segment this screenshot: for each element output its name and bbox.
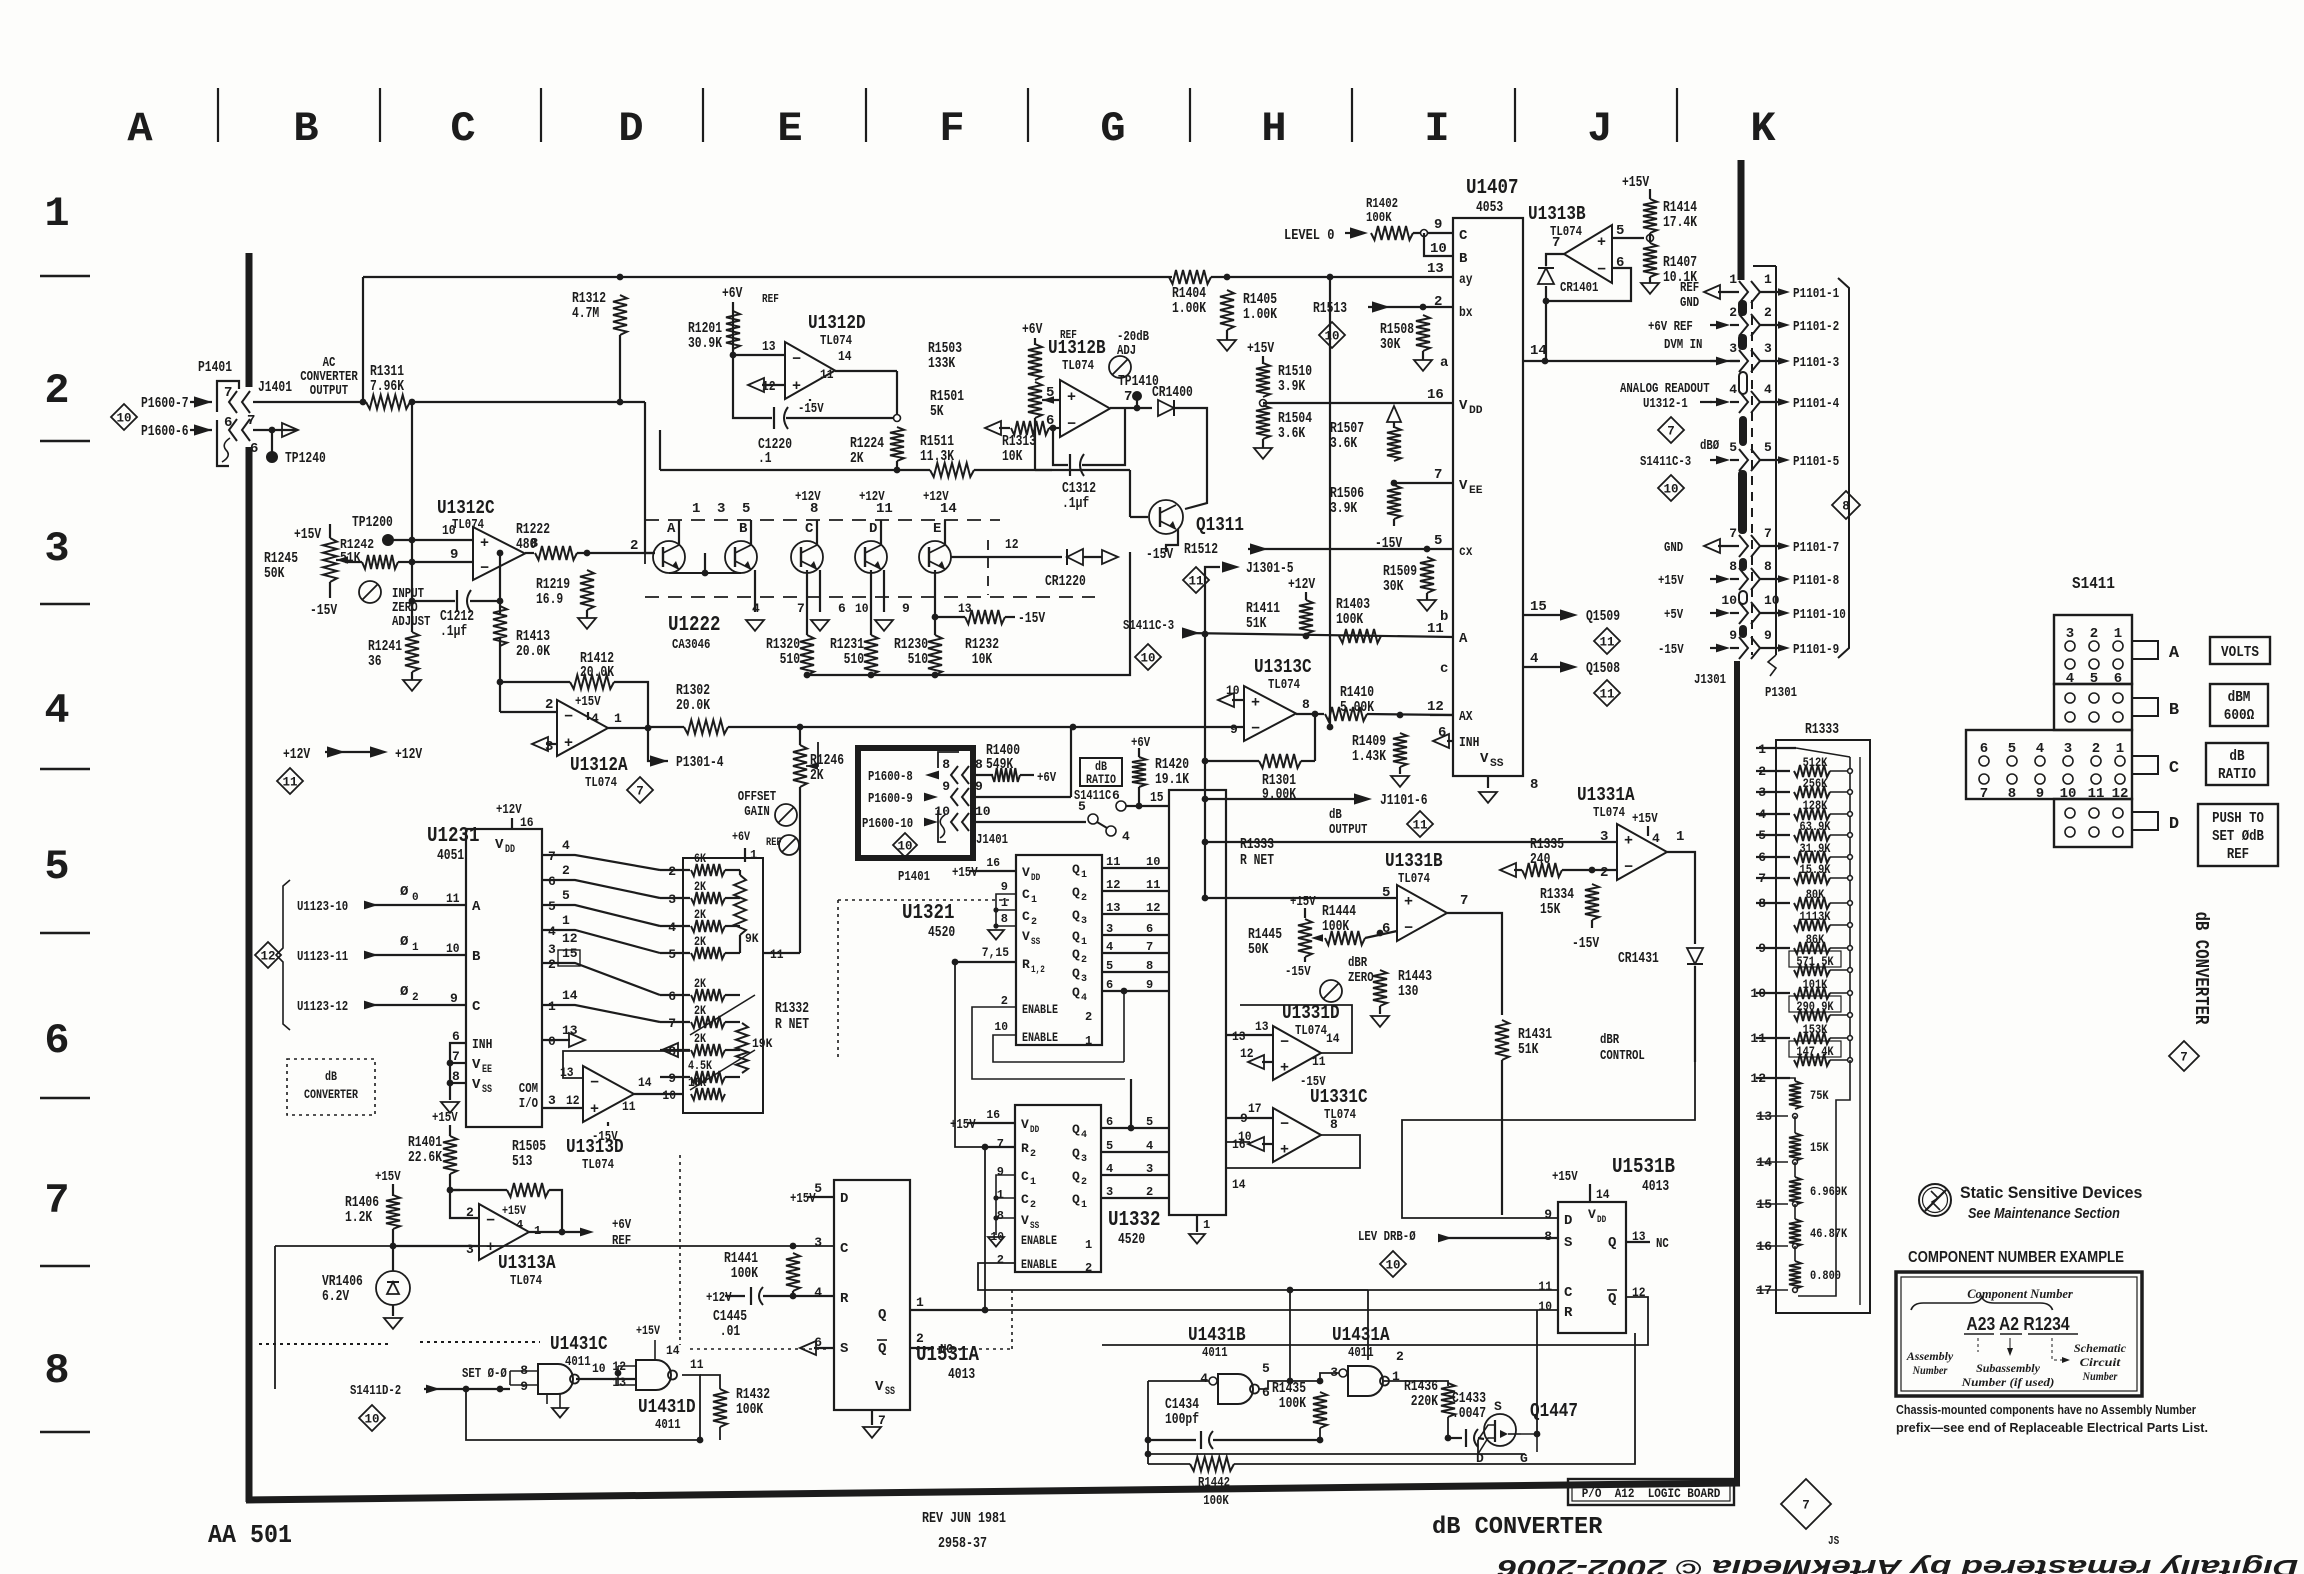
- wire x985 column: [984, 1147, 986, 1310]
- open arrow U1331D plus: [1248, 1055, 1264, 1069]
- wire R1411 top: [1305, 592, 1307, 600]
- svg-text:prefix—see end of Replaceable: prefix—see end of Replaceable Electrical…: [1896, 1420, 2208, 1435]
- diamond ref 12 (U1123): [255, 942, 281, 968]
- resistor R1333 element 0.800: [1789, 1261, 1801, 1289]
- wire C1445 left: [725, 1295, 745, 1297]
- R1333 vpin 16 stub: [1756, 1245, 1788, 1247]
- transistor U1222-A name: [667, 521, 676, 537]
- svg-text:SET ØdB: SET ØdB: [2212, 828, 2264, 845]
- svg-text:1: 1: [1676, 829, 1684, 845]
- wire P1101-4 r: [1760, 401, 1780, 403]
- IC U1407 label: [1466, 177, 1519, 200]
- R1333 node 31.9K: [1848, 855, 1853, 860]
- test point TP1200 dot: [382, 534, 394, 546]
- U1231 out 2 label: [548, 957, 556, 972]
- svg-text:+6V: +6V: [1022, 321, 1042, 338]
- resistor R1441: [786, 1253, 800, 1291]
- wire P1101-10 l: [1710, 612, 1722, 614]
- svg-text:10: 10: [1140, 652, 1155, 666]
- U1332 net 4: [1146, 1139, 1153, 1153]
- J1401 pin 8 left: [942, 757, 950, 772]
- wire P1600-10 row: [970, 821, 1086, 823]
- svg-text:2K: 2K: [694, 1031, 706, 1046]
- wire U1531A S stub: [814, 1347, 834, 1349]
- junction bus/P1401col: [797, 724, 804, 731]
- U1321 out sub 2: [1081, 893, 1087, 904]
- junction C1434 left node: [1145, 1437, 1152, 1444]
- svg-text:Subassembly: Subassembly: [1976, 1361, 2040, 1375]
- resistor R1333 element 153K: [1794, 1032, 1830, 1044]
- R1333 node 63.9K: [1848, 833, 1853, 838]
- text 2958-37: [938, 1535, 987, 1552]
- junction U1312A out: [645, 725, 652, 732]
- svg-text:Q: Q: [1072, 985, 1080, 1000]
- wire out U1312C: [525, 552, 534, 554]
- svg-text:INH: INH: [1459, 735, 1479, 751]
- svg-text:+6V: +6V: [612, 1217, 632, 1233]
- svg-text:+15V: +15V: [1622, 174, 1649, 191]
- grid row dash: [40, 603, 90, 605]
- wire U1312-1 stub: [1700, 401, 1712, 403]
- wire U1231 vss strap: [450, 1082, 466, 1084]
- R1333 vpin 13 stub: [1756, 1115, 1788, 1117]
- junction R1312 bottom: [617, 399, 624, 406]
- pot R1246 wiper: [806, 762, 818, 769]
- svg-text:Q: Q: [1072, 1122, 1080, 1137]
- op-amp U1331B: [1397, 885, 1447, 941]
- U1231 VSS sub: [482, 1084, 492, 1096]
- wire P1600-7 stub: [190, 401, 212, 403]
- svg-text:S: S: [840, 1341, 848, 1357]
- IC U1407 box: [1453, 218, 1523, 776]
- wire R1501 bottom to R1511: [1034, 418, 1036, 470]
- pin 11 U1331D: [1312, 1054, 1326, 1069]
- svg-text:3: 3: [2064, 741, 2072, 757]
- wire RNET pin16: [1226, 1141, 1250, 1143]
- opamp U1331C label: [1310, 1086, 1368, 1108]
- svg-text:14: 14: [1530, 343, 1547, 359]
- resistor network R1333 ladder label: [1805, 721, 1839, 738]
- svg-text:COMPONENT NUMBER EXAMPLE: COMPONENT NUMBER EXAMPLE: [1908, 1249, 2124, 1266]
- R1333 node 153K: [1848, 1036, 1853, 1041]
- U1231 out num 1: [562, 913, 570, 928]
- wire U1312D plus stub: [762, 384, 785, 386]
- svg-text:JS: JS: [1828, 1534, 1839, 1548]
- connector P1401 label: [198, 359, 232, 376]
- U1407 pin number 12: [1427, 699, 1444, 715]
- wire U1313C out: [1296, 713, 1324, 715]
- U1321 vss strap: [996, 925, 1016, 927]
- R1333 vpin 14 num: [1756, 1155, 1772, 1170]
- S1411D hole: [2113, 808, 2123, 818]
- ground (D emitter): [875, 620, 893, 631]
- R1333 pin 3 stub: [1756, 791, 1790, 793]
- R1332 pin 5 number: [668, 947, 676, 962]
- R1332 element out 8: [725, 1049, 740, 1051]
- svg-text:1,2: 1,2: [1031, 965, 1045, 976]
- text -15V (Q1311): [1146, 546, 1173, 563]
- wire U1231 out 1 to R1332: [542, 1005, 660, 1022]
- wire C1433 right: [1478, 1438, 1484, 1439]
- resistor R1333 element 75K: [1789, 1081, 1801, 1109]
- wire R1412 to out: [614, 682, 648, 728]
- pin 9 U1313C: [1230, 722, 1238, 737]
- S1411C num2 10: [2060, 786, 2077, 802]
- pin 6 label (P1401): [224, 415, 232, 431]
- svg-text:+15V: +15V: [294, 526, 321, 543]
- R1333 inner path top: [1796, 748, 1860, 757]
- resistor R1442: [1190, 1457, 1234, 1471]
- wire R1435 bottom: [1319, 1428, 1321, 1440]
- diamond ref 10 (S1411D-2): [359, 1405, 385, 1431]
- arrow U1123-11: [364, 951, 378, 960]
- brace U1123 inputs: [276, 880, 290, 1030]
- grid row number 8: [44, 1347, 69, 1395]
- U1431B pin5: [1262, 1361, 1270, 1376]
- U1531A Q: [878, 1307, 886, 1323]
- svg-text:REF: REF: [762, 292, 779, 306]
- svg-text:8: 8: [44, 1347, 69, 1395]
- svg-text:11: 11: [446, 891, 460, 906]
- R1333 element right 63.9K: [1830, 834, 1850, 836]
- U1407 pin bx: [1459, 305, 1473, 321]
- R1332 element out 2: [725, 869, 740, 871]
- wire U1313D out: [634, 1093, 683, 1095]
- R1333 vvalue 46.87K: [1810, 1226, 1847, 1241]
- connector P1401 thick box: [858, 748, 973, 858]
- P1101-9 pin num left: [1729, 628, 1737, 643]
- junction minus/R1242: [409, 559, 416, 566]
- resistor network R1332 label: [775, 1000, 809, 1033]
- U1531A D: [840, 1191, 848, 1207]
- board border left thick (lower): [246, 447, 253, 1502]
- diamond ref 11 (R1512): [1183, 567, 1209, 593]
- resistor R1333 element 63.9K: [1794, 829, 1830, 841]
- svg-text:U1312B: U1312B: [1048, 337, 1106, 359]
- U1321 C2: [1022, 909, 1030, 924]
- S1411C num 1: [2116, 741, 2124, 757]
- svg-text:V: V: [1021, 1213, 1029, 1228]
- ground (R1219): [578, 618, 596, 629]
- svg-text:9K: 9K: [745, 931, 759, 946]
- svg-text:.1: .1: [758, 450, 772, 467]
- svg-text:-15V: -15V: [1285, 964, 1311, 980]
- S1411C num 4: [2036, 741, 2044, 757]
- opamp U1331B label: [1385, 850, 1443, 872]
- U1407 pin a: [1440, 355, 1449, 371]
- U1332 VSS sub: [1030, 1221, 1039, 1232]
- svg-text:D: D: [840, 1191, 848, 1207]
- svg-text:30K: 30K: [1383, 578, 1403, 595]
- transistor U1222-E: [919, 541, 951, 573]
- wire P1101-3 r: [1760, 360, 1780, 362]
- R1333 node 256K: [1848, 790, 1853, 795]
- junction R1509 top: [1424, 546, 1431, 553]
- U1222 pin 14 label: [940, 501, 957, 517]
- wire U1313A minus: [450, 1190, 479, 1218]
- svg-text:10: 10: [1430, 241, 1447, 257]
- R1333 vlink above 75K: [1794, 1078, 1796, 1081]
- node P1101-1 label: [1793, 286, 1839, 302]
- wire b out: [1523, 614, 1560, 616]
- svg-text:R1512: R1512: [1184, 541, 1218, 558]
- arrow to P1101-7 label: [1778, 542, 1790, 549]
- text -15V (R1245): [310, 602, 337, 619]
- diode CR1431 label: [1618, 950, 1659, 967]
- wire U1222 collector riser: [750, 520, 752, 545]
- svg-text:+6V: +6V: [722, 285, 742, 302]
- svg-text:13: 13: [1255, 1019, 1269, 1034]
- wire out down to R1224: [896, 371, 898, 414]
- svg-text:ANALOG READOUT: ANALOG READOUT: [1620, 381, 1710, 397]
- ground (U1231): [441, 1102, 459, 1113]
- board edge right thick top: [1738, 160, 1745, 280]
- wire R1232 left: [935, 616, 965, 618]
- grid row number 2: [44, 367, 69, 415]
- wire U1231 out 6 to R1332: [542, 880, 660, 898]
- svg-text:2K: 2K: [694, 934, 706, 949]
- screw offset gain: [775, 804, 797, 826]
- S1411C hole 1: [2115, 756, 2125, 766]
- potentiometer R1445: [1298, 919, 1312, 957]
- svg-text:−: −: [1624, 859, 1633, 876]
- R1333 pin 6 num: [1758, 850, 1766, 865]
- resistor R1230 label: [894, 636, 928, 668]
- ground (R1407): [1641, 283, 1659, 294]
- text REF: [2227, 846, 2249, 863]
- wire U1332 Q2: [1101, 1174, 1169, 1176]
- svg-text:16: 16: [1427, 387, 1444, 403]
- svg-text:V: V: [472, 1057, 481, 1073]
- IC U1321 box: [1016, 855, 1102, 1045]
- svg-text:8: 8: [1001, 912, 1008, 926]
- text Circuit: [2080, 1355, 2121, 1369]
- open arrow (U1231 out 0): [569, 1033, 585, 1047]
- wire U1531A NC: [910, 1347, 934, 1349]
- wire VR1406 top: [392, 1246, 394, 1271]
- svg-text:ENABLE: ENABLE: [1021, 1257, 1057, 1272]
- ground (R1333 net): [1189, 1234, 1205, 1244]
- S1411D hole2: [2065, 827, 2075, 837]
- junction U1313A out: [559, 1229, 566, 1236]
- junction J1301-5 riser: [1202, 631, 1209, 638]
- text Assembly Number: [1906, 1349, 1954, 1363]
- wire R1432 bottom: [719, 1427, 721, 1440]
- grid column letter H: [1261, 105, 1286, 153]
- S1411C hole2 11: [2091, 774, 2101, 784]
- junction U1431B node: [1287, 1378, 1294, 1385]
- U1407 pin number 6: [1438, 725, 1446, 741]
- svg-text:CA3046: CA3046: [672, 637, 710, 653]
- grid column tick: [540, 88, 542, 142]
- potentiometer R1501 label: [930, 388, 964, 420]
- svg-text:.0047: .0047: [1452, 1405, 1486, 1422]
- svg-text:Q: Q: [1072, 947, 1080, 962]
- U1531A pin6: [814, 1335, 822, 1350]
- junction y898: [1202, 895, 1209, 902]
- U1531B Qbar: [1608, 1291, 1616, 1307]
- U1332 C2: [1021, 1192, 1029, 1207]
- S1411C num2 12: [2112, 786, 2129, 802]
- nand gate U1431A: [1348, 1366, 1389, 1396]
- wire R1501 wiper to plus: [1042, 399, 1060, 401]
- svg-text:16: 16: [986, 856, 1000, 870]
- svg-text:+12V: +12V: [859, 489, 885, 505]
- resistor R1402: [1371, 226, 1413, 240]
- svg-text:See Maintenance Section: See Maintenance Section: [1968, 1205, 2120, 1222]
- S1411A num2 5: [2090, 671, 2098, 687]
- text NC (U1531B): [1656, 1236, 1669, 1252]
- R1333 vnode 17: [1793, 1288, 1798, 1293]
- wire P1101-1 r: [1760, 291, 1780, 293]
- U1531A VSS: [875, 1379, 884, 1395]
- svg-text:U1313A: U1313A: [498, 1252, 556, 1274]
- ground (R1504): [1254, 448, 1272, 459]
- pin 7 U1313B: [1552, 235, 1560, 251]
- svg-text:20.0K: 20.0K: [676, 697, 710, 714]
- node J1101-6 label: [1380, 792, 1428, 809]
- arrow +12V right: [370, 746, 388, 757]
- svg-text:6: 6: [838, 601, 846, 616]
- gate U1431A label: [1332, 1324, 1390, 1346]
- connector J1401 pin7 chevron b: [242, 391, 250, 413]
- U1321 en1 pin: [1085, 1010, 1092, 1024]
- U1332 pin16: [986, 1108, 1000, 1122]
- svg-text:R: R: [1022, 957, 1030, 972]
- wire Q1447 gate down: [1521, 1434, 1537, 1452]
- svg-text:SS: SS: [1031, 937, 1040, 948]
- ground (B emitter): [746, 620, 764, 631]
- svg-text:14: 14: [1232, 1177, 1246, 1192]
- svg-text:cx: cx: [1459, 544, 1473, 560]
- potentiometer R1445 label: [1248, 926, 1282, 958]
- svg-text:10: 10: [446, 941, 460, 956]
- U1231 out num 5: [562, 888, 570, 903]
- svg-text:4: 4: [2036, 741, 2044, 757]
- screw +6V adj: [779, 835, 799, 855]
- svg-text:+6V: +6V: [1131, 735, 1151, 751]
- svg-text:SET Ø-Ø: SET Ø-Ø: [462, 1366, 507, 1382]
- svg-text:DD: DD: [1031, 873, 1040, 884]
- svg-text:TL074: TL074: [582, 1157, 614, 1173]
- S1411C hole 6: [1979, 756, 1989, 766]
- junction x1290/1290: [1287, 1287, 1294, 1294]
- svg-text:DD: DD: [1597, 1215, 1606, 1226]
- resistor R1333 element 256K: [1794, 786, 1830, 798]
- connector P1101-2 chevron P: [1751, 314, 1760, 336]
- svg-text:17: 17: [1248, 1101, 1262, 1116]
- node P1101-2 label: [1793, 319, 1839, 335]
- switch S1411 section A: [2054, 615, 2132, 684]
- svg-text:C: C: [450, 105, 475, 153]
- text Component Number: [1967, 1286, 2074, 1301]
- resistor network R1332 box: [683, 858, 763, 1113]
- S1411C hole 5: [2007, 756, 2017, 766]
- net 15 label (switch): [1150, 790, 1164, 806]
- U1321 pin8: [1001, 912, 1008, 926]
- wire U1531A Q out: [910, 1309, 985, 1311]
- switch contact 5 label: [1078, 799, 1086, 814]
- wire out feedback down: [1314, 714, 1316, 761]
- op-amp U1313D: [583, 1066, 634, 1122]
- arrow P1600-7: [194, 396, 212, 407]
- svg-text:D: D: [618, 105, 643, 153]
- text +12V (R1411): [1288, 576, 1315, 593]
- svg-text:D: D: [1564, 1213, 1572, 1229]
- grid row number 1: [44, 190, 69, 238]
- svg-text:P1101-2: P1101-2: [1793, 319, 1839, 335]
- diamond ref 7 (bottom): [1781, 1479, 1831, 1529]
- U1407 pin B: [1459, 251, 1468, 267]
- wire U1321-U1332 link left: [955, 962, 1016, 1147]
- svg-text:86K: 86K: [1806, 932, 1825, 947]
- wire R1443 bot: [1379, 1006, 1381, 1014]
- svg-text:1: 1: [1085, 1034, 1092, 1048]
- R1332 pin 10 number: [662, 1088, 676, 1103]
- R1333 value outline box: [1789, 1041, 1841, 1057]
- svg-text:S1411: S1411: [2072, 575, 2115, 594]
- text +15V (R1445): [1290, 894, 1316, 910]
- text +6V (R1420): [1131, 735, 1151, 751]
- svg-text:−: −: [1404, 920, 1413, 937]
- svg-text:Q: Q: [1072, 929, 1080, 944]
- arrow LEV DRB-0: [1438, 1234, 1452, 1243]
- wire LEV DRB-0: [1438, 1237, 1558, 1239]
- junction rail E: [932, 672, 939, 679]
- svg-text:2: 2: [1085, 1261, 1092, 1275]
- nand gate U1431C: [538, 1364, 579, 1394]
- U1321 outB Q3 label: [1072, 966, 1080, 981]
- switch contact 4 label: [1122, 829, 1130, 844]
- U1321 R12 sub: [1031, 965, 1045, 976]
- svg-text:bx: bx: [1459, 305, 1473, 321]
- U1332 out sub 3: [1081, 1154, 1087, 1165]
- wire U1321 Q1: [1102, 867, 1169, 869]
- wire U1321 enable2 chain: [972, 1007, 1125, 1079]
- switch S1411 section C: [1966, 730, 2132, 799]
- connector P1401 box label: [898, 869, 930, 885]
- S1411C num 5: [2008, 741, 2016, 757]
- wire R1508 bot: [1422, 351, 1424, 360]
- pin 10 (net) U1313D: [688, 1075, 702, 1090]
- svg-text:8: 8: [1544, 1229, 1552, 1244]
- svg-text:7: 7: [452, 1049, 460, 1064]
- connector J1401 chevron b y797: [962, 788, 969, 806]
- text -15V (R1445): [1285, 964, 1311, 980]
- arrow to P1101-8 label: [1778, 575, 1790, 582]
- resistor R1333 element 101K: [1794, 987, 1830, 999]
- text REV JUN 1981: [922, 1510, 1006, 1527]
- R1332 diag 1: [690, 995, 755, 1035]
- text +15V (R1510): [1247, 340, 1274, 357]
- J1401 pin 10 right: [975, 804, 991, 819]
- svg-text:12: 12: [566, 1093, 580, 1108]
- svg-text:C: C: [805, 521, 814, 537]
- R1333 vpin 15 num: [1756, 1197, 1772, 1212]
- resistor R1431 label: [1518, 1026, 1552, 1058]
- U1222 pin 5 label: [742, 501, 750, 517]
- resistor R1313 label: [1002, 433, 1036, 465]
- U1321 net 11: [1146, 878, 1160, 892]
- resistor R1511: [930, 463, 974, 477]
- resistor R1333 element 15K: [1789, 1133, 1801, 1161]
- wire AB emitter drop: [704, 553, 706, 573]
- wire R1245 top: [329, 524, 331, 538]
- svg-text:D: D: [869, 521, 877, 537]
- svg-text:1.2K: 1.2K: [345, 1209, 372, 1226]
- text PUSH TO: [2212, 810, 2264, 827]
- svg-text:TL074: TL074: [1324, 1107, 1356, 1123]
